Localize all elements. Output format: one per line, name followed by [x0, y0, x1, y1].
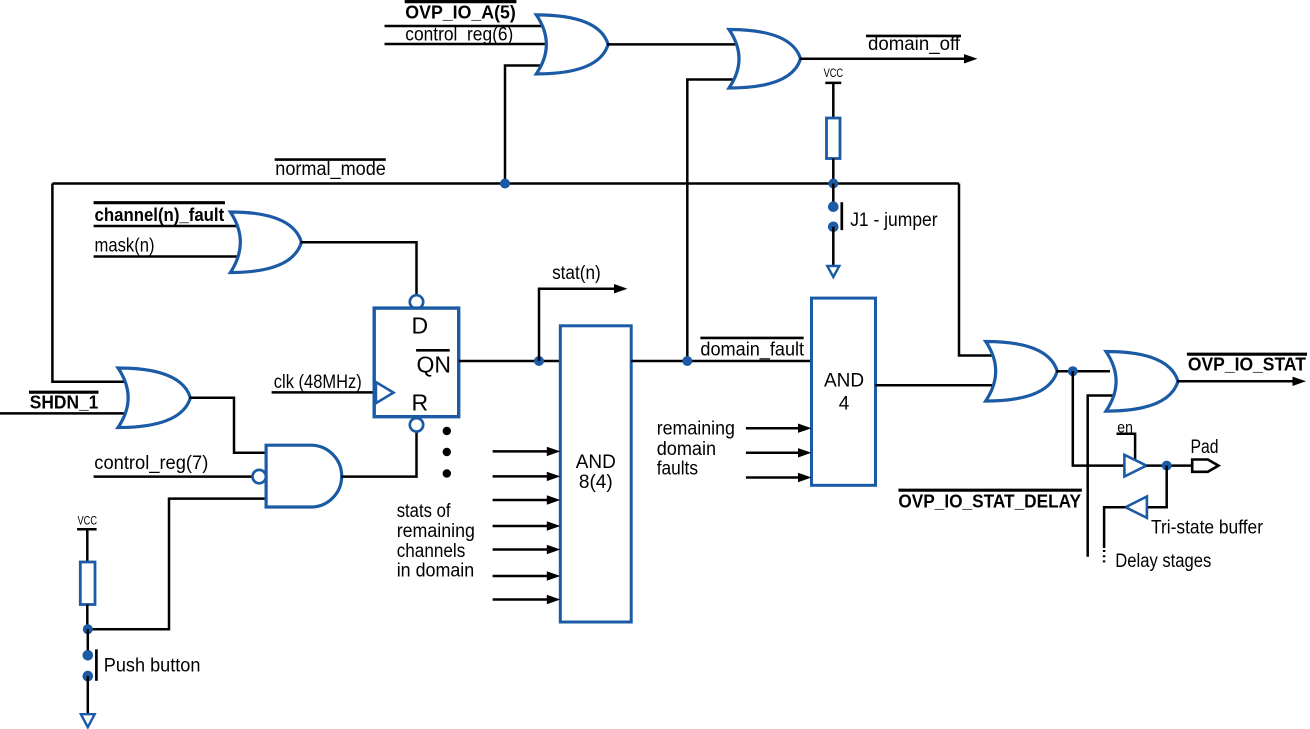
svg-text:channels: channels — [397, 541, 466, 562]
wire pull-up node to nand G5 bottom input — [88, 499, 272, 630]
resistor R1 (pull-up) — [80, 562, 95, 605]
label domain_fault with overline — [700, 337, 803, 340]
svg-text:QN: QN — [417, 352, 452, 378]
resistor R2 (pull-up) — [827, 118, 841, 159]
wire SHDN_1 input — [0, 412, 128, 415]
label channel(n)_fault with overline — [94, 201, 225, 204]
label domain_off with overline — [866, 35, 961, 38]
and-block U3 AND 4 — [812, 298, 876, 485]
svg-text:AND: AND — [576, 452, 616, 473]
label SHDN_1 with overline — [29, 391, 99, 394]
svg-text:OVP_IO_A(5): OVP_IO_A(5) — [405, 1, 516, 22]
wire normal_mode right leg to G6 top input — [959, 184, 992, 356]
junction node normal_mode / jumper pull-up — [828, 179, 838, 189]
svg-text:stat(n): stat(n) — [552, 263, 601, 284]
wire delay stages up to G7 bottom input — [1088, 396, 1114, 557]
wire G6 output to G7 — [1056, 370, 1110, 373]
junction node normal_mode / G1 input — [500, 179, 510, 189]
svg-text:Pad: Pad — [1191, 437, 1219, 458]
wire resistor R1 to junction — [86, 605, 89, 630]
input arrows: remaining domain faults — [746, 424, 812, 483]
wire jumper J1 to ground arrow — [832, 227, 835, 266]
pad symbol — [1192, 460, 1218, 472]
svg-text:OVP_IO_STAT_DELAY: OVP_IO_STAT_DELAY — [898, 491, 1081, 512]
wire vcc bar to resistor R2 — [832, 83, 835, 118]
svg-text:Push button: Push button — [104, 655, 201, 676]
junction node pad — [1162, 461, 1172, 471]
wire stat(n) with arrow — [539, 289, 616, 361]
wire B1 output to pad — [1147, 464, 1193, 467]
push button contacts and actuator bar — [83, 650, 94, 661]
tri-state buffer B1 (output) — [1124, 455, 1146, 477]
svg-text:channel(n)_fault: channel(n)_fault — [95, 204, 225, 225]
d-flip-flop U1 — [374, 308, 459, 417]
inverter bubble on D input — [410, 295, 423, 308]
svg-text:domain: domain — [657, 439, 716, 460]
jumper J1 contacts and bar — [828, 201, 839, 212]
wire resistor R2 to normal_mode junction — [832, 159, 835, 184]
tri-state buffer B2 (return, delay input) — [1126, 497, 1147, 518]
wire push button to ground arrow — [87, 676, 90, 714]
svg-text:stats of: stats of — [397, 501, 451, 522]
wire clk input — [272, 391, 374, 394]
input arrows: stats of remaining channels in domain — [493, 447, 561, 605]
wire junction to push button top contact — [87, 629, 90, 652]
wire channel(n)_fault input — [94, 225, 242, 228]
svg-text:4: 4 — [839, 393, 850, 414]
label remaining domain faults — [657, 419, 735, 480]
svg-text:D: D — [412, 313, 429, 339]
svg-text:control_reg(7): control_reg(7) — [94, 453, 208, 474]
label normal_mode with overline — [275, 158, 386, 161]
svg-text:8(4): 8(4) — [579, 472, 613, 493]
svg-text:mask(n): mask(n) — [95, 236, 155, 257]
label OVP_IO_STAT_DELAY with overline — [898, 489, 1082, 492]
label stats of remaining channels in domain — [397, 501, 475, 582]
label OVP_IO_A(5) with overline — [405, 0, 517, 3]
svg-text:J1 - jumper: J1 - jumper — [850, 210, 938, 231]
nand-gate G5 — [266, 445, 342, 507]
wire control_reg(7) input — [94, 475, 253, 478]
svg-text:domain_fault: domain_fault — [700, 339, 804, 360]
wire normal_mode down-left to G3 top input — [52, 184, 126, 382]
label OVP_IO_STAT with overline — [1187, 353, 1307, 356]
svg-text:SHDN_1: SHDN_1 — [30, 392, 99, 413]
svg-text:faults: faults — [657, 459, 698, 480]
wire vcc bar to resistor R1 — [86, 529, 89, 562]
wire normal_mode horizontal — [52, 182, 959, 185]
or-gate G6 — [986, 342, 1057, 402]
wire en to tri-state buffer enable — [1117, 434, 1136, 459]
wire OVP_IO_A(5) input — [385, 25, 549, 28]
wire junction down to tri-state buffer input — [1073, 371, 1125, 465]
wire normal_mode to or-gate G1 third input — [505, 66, 548, 184]
wire junction to jumper J1 top contact — [832, 184, 835, 204]
wire mask(n) input — [94, 255, 242, 258]
ellipsis dots (repeated channels) — [443, 427, 451, 478]
wire QN output to and-block U2 — [459, 360, 562, 363]
junction node pull-up / nand input — [83, 624, 93, 634]
wire pad node down to return buffer B2 — [1147, 466, 1167, 508]
svg-text:Tri-state buffer: Tri-state buffer — [1151, 518, 1264, 539]
svg-text:Delay stages: Delay stages — [1115, 551, 1211, 572]
dotted delay stages continuation — [1103, 550, 1106, 563]
ground arrow (push button) — [81, 714, 95, 727]
svg-text:R: R — [412, 389, 429, 415]
wire G4 output to D input bubble — [300, 242, 416, 295]
junction node stat(n) tap — [534, 356, 544, 366]
svg-text:AND: AND — [824, 370, 864, 391]
or-gate G1 (OVP_IO_A + control_reg) — [536, 15, 608, 74]
wire B2 output to delay stages — [1104, 507, 1125, 548]
svg-text:in domain: in domain — [397, 561, 475, 582]
svg-text:clk (48MHz): clk (48MHz) — [274, 372, 362, 393]
wire U3 output to G6 bottom input — [876, 384, 993, 387]
svg-text:domain_off: domain_off — [868, 34, 961, 55]
svg-text:OVP_IO_STAT: OVP_IO_STAT — [1188, 354, 1307, 375]
and-block U2 AND 8(4) — [560, 326, 631, 622]
wire OVP_IO_STAT output with arrow — [1177, 380, 1294, 383]
wire control_reg(6) input — [385, 43, 551, 46]
or-gate G7 (OVP_IO_STAT) — [1106, 352, 1178, 412]
wire nand G5 output to R input bubble — [341, 432, 416, 477]
svg-text:normal_mode: normal_mode — [275, 159, 386, 180]
wire G1 output to G2 — [607, 43, 740, 46]
junction node domain_fault — [682, 356, 692, 366]
svg-text:VCC: VCC — [824, 68, 844, 80]
svg-text:VCC: VCC — [78, 516, 98, 528]
inverter bubble on G5 control_reg(7) input — [253, 470, 266, 483]
or-gate G2 (domain_off) — [729, 30, 801, 89]
wire domain_off output with arrow — [800, 58, 966, 61]
inverter bubble on R input — [410, 418, 423, 431]
or-gate G3 (SHDN) — [118, 368, 190, 428]
wire G3 output to nand G5 top input — [189, 398, 272, 453]
svg-text:remaining: remaining — [657, 419, 735, 440]
or-gate G4 (channel fault masking) — [230, 212, 301, 273]
svg-text:remaining: remaining — [397, 521, 475, 542]
junction node G6 output / buffer tap — [1068, 366, 1078, 376]
wire domain_fault node up to G2 lower input — [687, 80, 740, 362]
svg-text:control_reg(6): control_reg(6) — [405, 24, 513, 45]
ground arrow (J1 jumper) — [827, 266, 839, 277]
wire U2 output (domain_fault) to and-block U3 — [631, 360, 814, 363]
